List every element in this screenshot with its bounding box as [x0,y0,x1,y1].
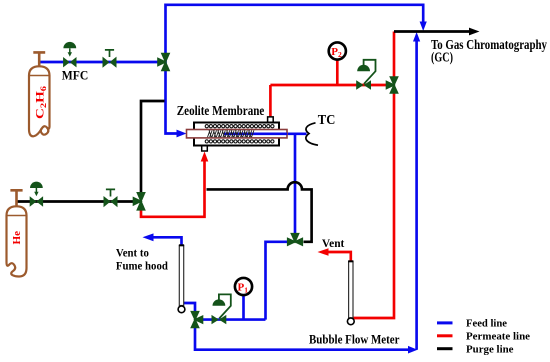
legend feed line dash [437,321,453,324]
bubble flow meter left (vent to fume hood) tube [179,246,183,306]
svg-text:Feed line: Feed line [466,317,507,329]
control valve MFC-He (bowtie) [30,196,37,206]
gas cylinder C2H6 shoulder line [29,75,50,77]
wire V5 up to left bubble flow meter [184,303,196,312]
wire permeate: V2 up to GC line [393,32,396,77]
wire P1 gauge stub [242,296,245,320]
svg-text:He: He [11,231,23,245]
membrane module top stub [268,117,274,122]
bubble flow meter left bulb [178,306,185,313]
gas cylinder C2H6 bottom loop [41,128,49,135]
gas cylinder He body [7,206,27,276]
wire P2 gauge stub [336,60,339,85]
svg-text:Permeate line: Permeate line [466,330,530,342]
wire vent to fume hood with arrow [153,237,182,245]
arrow vent to fume hood (left) [143,233,154,241]
wire permeate: V2 down to bubble flow meter [353,94,395,319]
wire retentate inside tube and to TC point [224,132,307,135]
3-way valve V4 (retentate) [290,233,300,244]
pressure gauge P1 [235,278,252,295]
retentate regulator flag [219,294,231,318]
thermocouple TC symbol [306,123,318,145]
wire feed line cylinder to 3-way valve V1 [39,61,165,64]
3-way valve V5 (to bubble meter / bottom) [190,311,200,322]
wire right riser up to GC line [415,39,418,350]
arrow bottom line right [408,346,418,354]
legend permeate line dash [437,334,453,337]
back-pressure regulator flag [364,60,376,84]
arrow vent (right) [318,248,329,256]
control valve MFC actuator stem arrow [69,48,71,53]
membrane tube [187,130,288,138]
wire retentate: valve V4 left, down to bottom manifold [266,242,288,320]
wire purge tap: from sweep line, hop over blue, to valve V4 right [207,182,312,242]
retentate regulator dome [213,299,226,305]
wire retentate inside tube (over tube) [224,132,287,135]
3-way valve V1 (feed split) [161,53,171,64]
wire permeate: membrane top stub up [269,85,272,118]
wire feed bypass: up from V1, across top, down to GC line [166,5,424,62]
back-pressure regulator on permeate line (bowtie) [356,80,363,89]
gas cylinder He shoulder line [7,215,27,217]
wire feed: V1 down to membrane inlet [166,62,177,134]
arrow sweep up into membrane shell [201,152,209,162]
arrow retentate up into GC line [413,32,420,42]
svg-text:Zeolite Membrane: Zeolite Membrane [177,103,265,118]
arrow feed bypass down into GC line [420,22,427,32]
wire V5 bottom down and along bottom to right riser [195,328,409,350]
svg-text:TC: TC [318,112,336,127]
svg-text:Vent: Vent [322,238,345,250]
bubble flow meter right tube [349,262,353,319]
gas cylinder He valve stem [10,190,22,206]
pressure gauge P2 [329,42,346,59]
svg-text:Fume hood: Fume hood [116,260,169,272]
wire retentate manifold to valve V5 [196,318,266,321]
needle valve stem and handle [105,50,114,57]
gas cylinder C2H6 valve stem [33,52,45,66]
membrane packing hatch inside tube [208,130,254,137]
needle valve purge stem and handle [106,189,115,196]
membrane coil dots top row [205,125,274,128]
wire retentate down from membrane outlet [294,134,297,233]
wire permeate header to valve V2 [270,84,394,87]
needle valve on purge line (bowtie) [104,196,111,207]
svg-text:MFC: MFC [62,67,89,82]
3-way valve V2 (permeate to GC / vent) [389,76,399,87]
needle valve on feed line (bowtie) [103,57,110,68]
control valve MFC-He actuator stem arrow [35,188,37,193]
arrow to gas chromatography [469,28,480,36]
membrane module shell [194,123,279,146]
wire GC outlet line [394,30,470,33]
back-pressure regulator dome [357,65,370,71]
gas cylinder C2H6 body [29,66,50,136]
legend purge line dash [437,347,453,350]
svg-text:(GC): (GC) [431,50,453,65]
svg-text:Purge line: Purge line [466,343,514,355]
3-way valve V3 (purge split) [136,192,146,203]
wire purge: V3 up and into feed line [141,101,165,193]
wire right bubble meter to vent arrow [328,252,351,262]
wire sweep: valve V3 bottom to membrane shell inlet [141,159,205,217]
control valve MFC actuator dome [63,42,76,48]
arrow feed into membrane tube [177,130,187,138]
wire purge: He cylinder to valve V3 [17,200,142,203]
control valve MFC (bowtie) [63,57,70,67]
svg-text:Bubble Flow Meter: Bubble Flow Meter [309,333,400,347]
back-pressure regulator on retentate line (bowtie) [212,315,219,324]
bubble flow meter right bulb [347,318,354,325]
control valve MFC-He actuator dome [30,182,43,188]
svg-text:Vent to: Vent to [116,247,149,259]
membrane module bottom stub [202,147,208,152]
membrane coil dots bottom row [205,140,274,143]
